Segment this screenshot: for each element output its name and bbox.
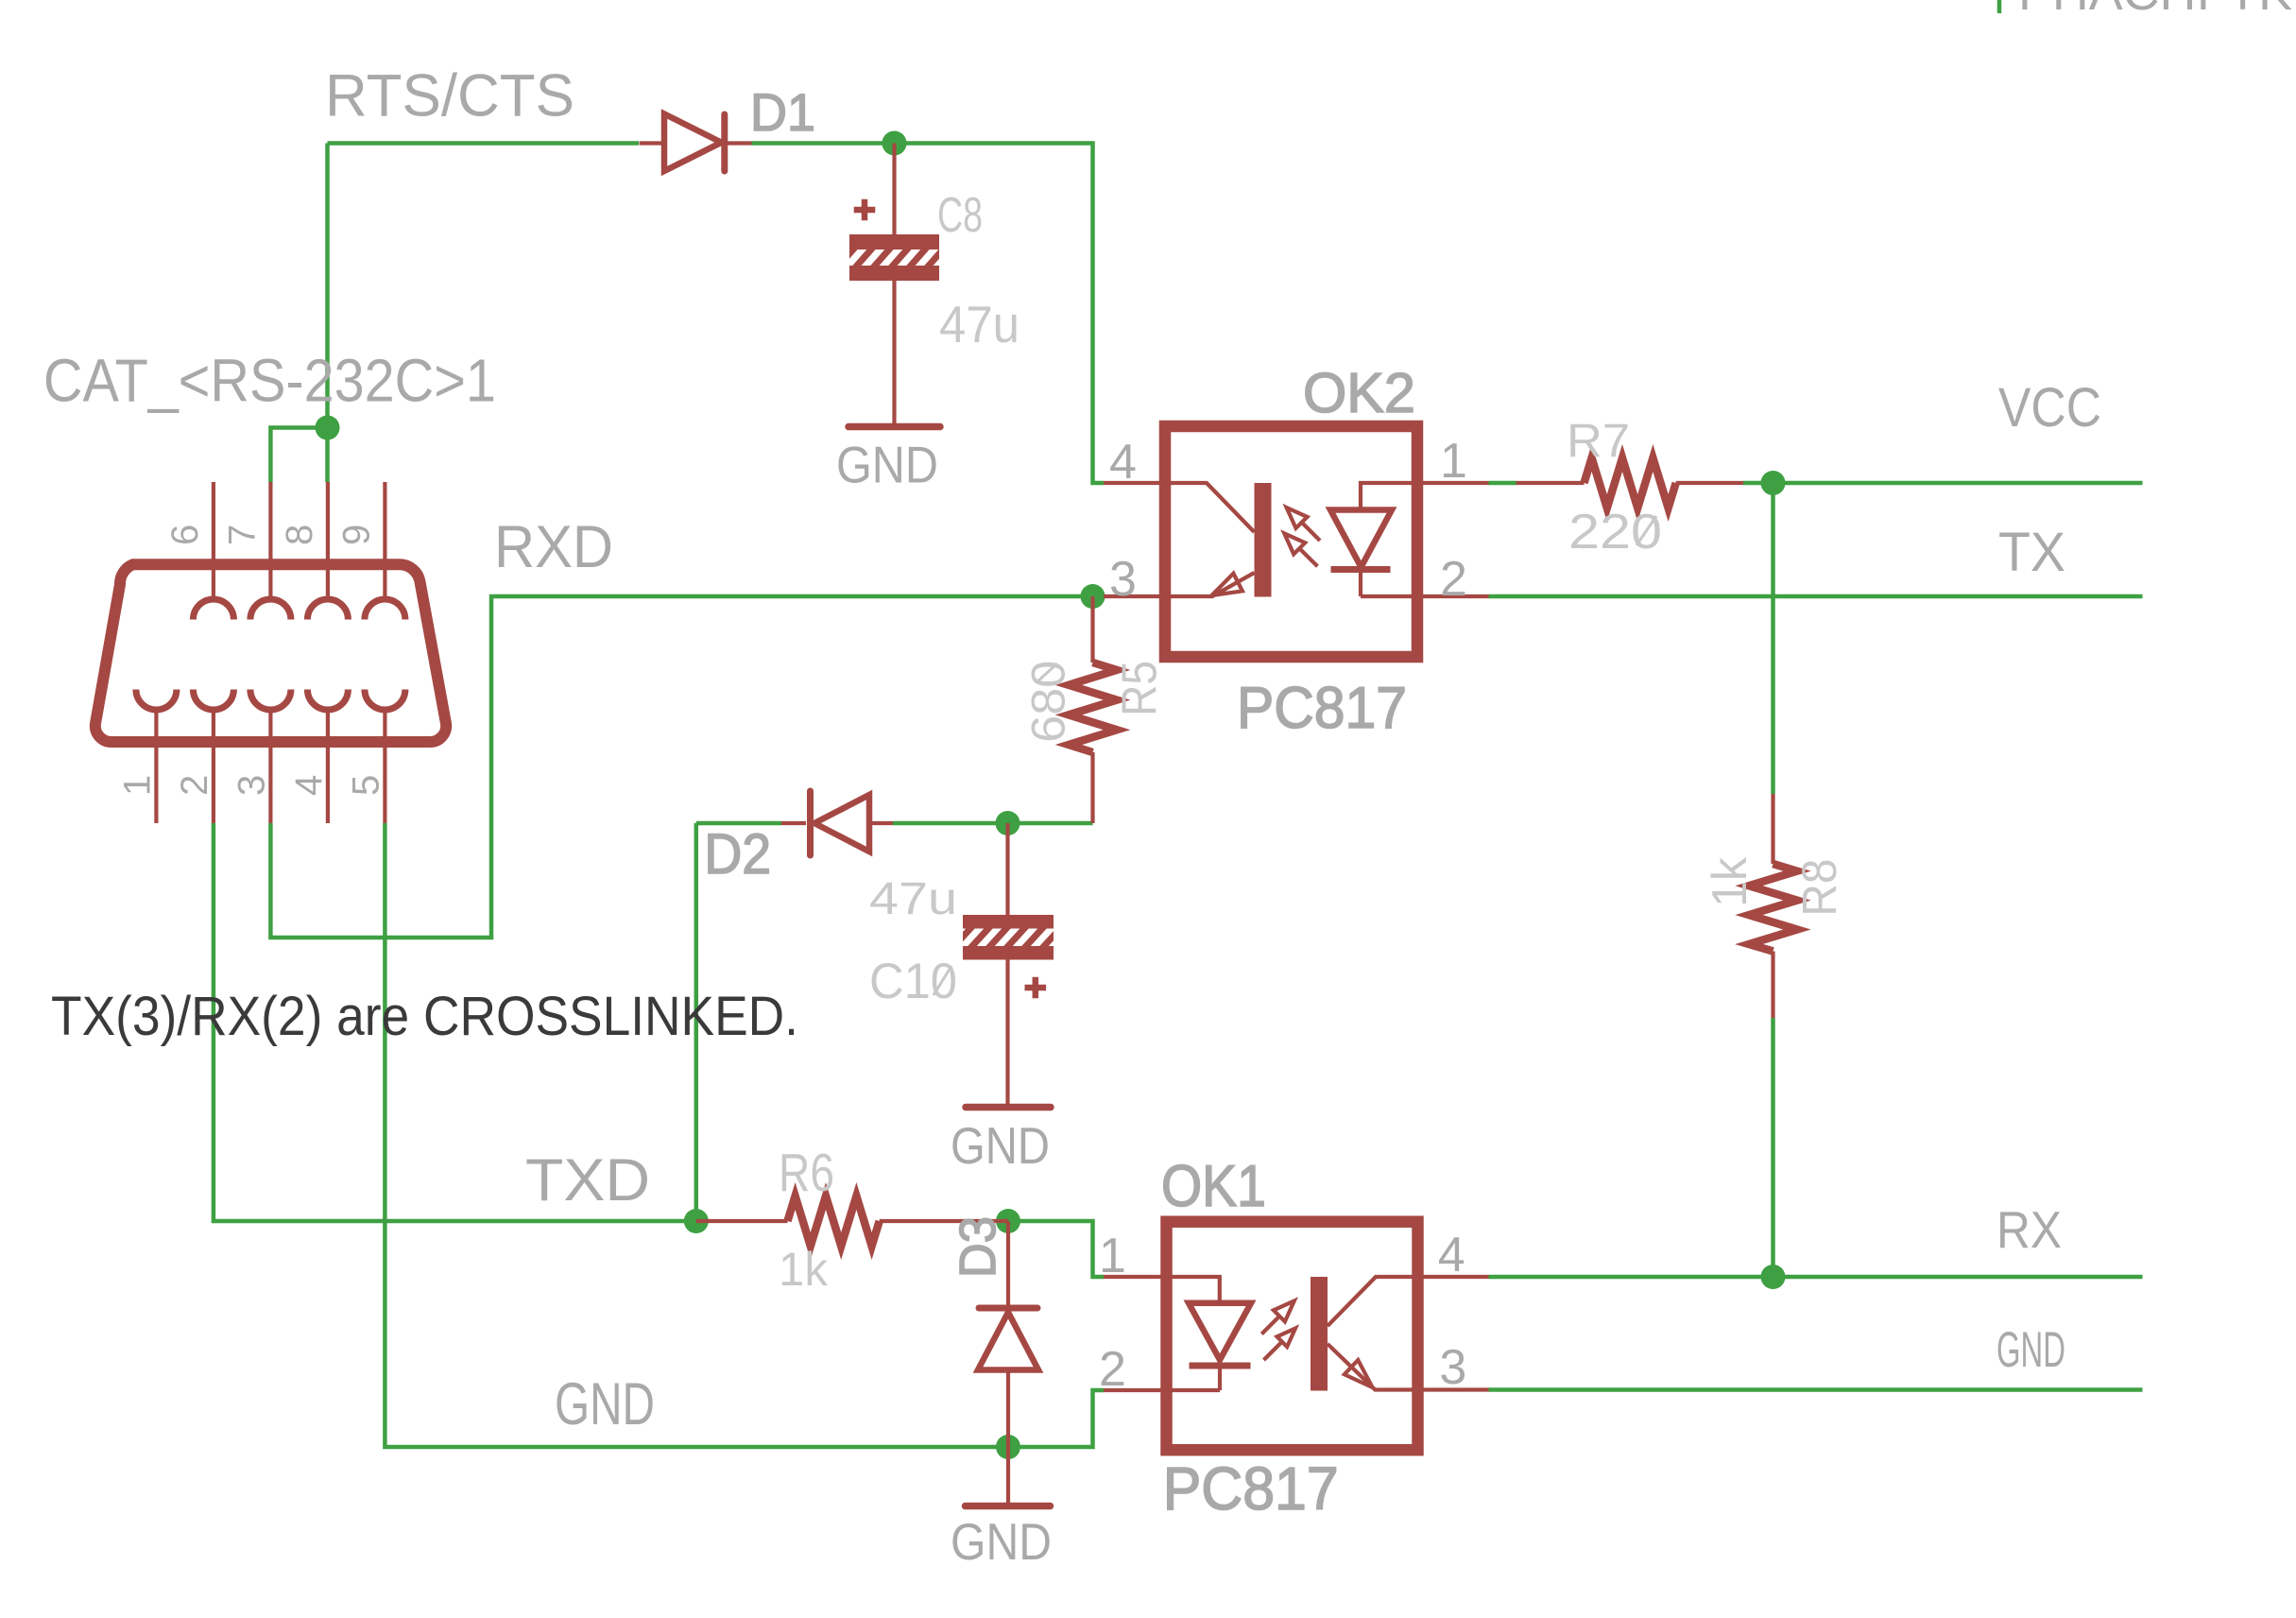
svg-text:PHACHI-TK: PHACHI-TK — [2018, 0, 2292, 21]
svg-text:220: 220 — [1568, 505, 1662, 559]
svg-text:2: 2 — [174, 775, 215, 796]
svg-text:R6: R6 — [779, 1143, 834, 1203]
svg-text:3: 3 — [231, 775, 272, 796]
svg-text:GND: GND — [836, 436, 938, 494]
svg-text:4: 4 — [1109, 435, 1137, 490]
svg-text:GND: GND — [951, 1512, 1052, 1571]
svg-text:2: 2 — [1099, 1342, 1126, 1397]
svg-text:VCC: VCC — [1998, 377, 2101, 439]
svg-text:R5: R5 — [1113, 661, 1168, 716]
svg-text:CAT_<RS-232C>1: CAT_<RS-232C>1 — [43, 347, 496, 415]
svg-text:2: 2 — [1440, 552, 1467, 607]
svg-text:R7: R7 — [1567, 414, 1630, 467]
svg-text:4: 4 — [1438, 1228, 1465, 1282]
svg-text:OK2: OK2 — [1303, 362, 1415, 424]
svg-text:TX(3)/RX(2) are CROSSLINKED.: TX(3)/RX(2) are CROSSLINKED. — [51, 986, 798, 1047]
svg-text:47u: 47u — [869, 874, 957, 924]
svg-text:RTS/CTS: RTS/CTS — [325, 62, 574, 129]
svg-text:1: 1 — [1099, 1229, 1126, 1283]
svg-text:C8: C8 — [937, 188, 983, 243]
svg-text:PC817: PC817 — [1237, 676, 1407, 741]
svg-text:1: 1 — [1440, 434, 1467, 489]
svg-text:1k: 1k — [1703, 856, 1757, 907]
svg-text:GND: GND — [1996, 1322, 2065, 1378]
svg-text:OK1: OK1 — [1161, 1154, 1266, 1219]
svg-text:47u: 47u — [939, 295, 1019, 353]
svg-text:5: 5 — [345, 775, 386, 796]
svg-text:TXD: TXD — [525, 1147, 650, 1213]
svg-text:3: 3 — [1109, 552, 1137, 607]
svg-text:RXD: RXD — [494, 514, 613, 580]
svg-text:6: 6 — [164, 525, 206, 545]
svg-text:PC817: PC817 — [1163, 1454, 1339, 1523]
svg-text:GND: GND — [951, 1116, 1050, 1175]
svg-text:RX: RX — [1996, 1200, 2062, 1259]
svg-text:C10: C10 — [869, 954, 957, 1009]
svg-text:R8: R8 — [1792, 859, 1846, 917]
svg-text:9: 9 — [335, 525, 377, 545]
svg-text:TX: TX — [1998, 522, 2065, 583]
svg-text:1k: 1k — [779, 1243, 829, 1296]
svg-text:D1: D1 — [750, 82, 815, 142]
svg-text:3: 3 — [1439, 1340, 1466, 1395]
svg-text:8: 8 — [279, 525, 320, 545]
svg-text:7: 7 — [221, 525, 263, 545]
svg-text:D2: D2 — [704, 822, 771, 886]
svg-text:1: 1 — [116, 775, 158, 796]
svg-text:D3: D3 — [950, 1216, 1006, 1278]
svg-text:GND: GND — [555, 1371, 655, 1437]
svg-text:4: 4 — [288, 775, 330, 796]
